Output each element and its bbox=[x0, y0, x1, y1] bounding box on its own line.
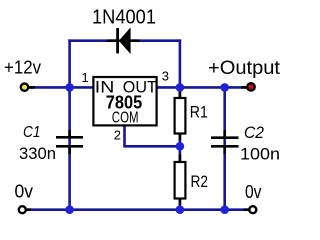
terminal +12v bbox=[21, 84, 28, 91]
terminal lead +Output bbox=[242, 86, 248, 89]
diode D1 cathode bar bbox=[116, 28, 119, 53]
junction dot bottom C2 bbox=[220, 205, 229, 214]
junction dot R1/R2/pin2 bbox=[176, 142, 185, 151]
junction dot bottom R2 bbox=[176, 205, 185, 214]
svg-text:C1: C1 bbox=[23, 124, 41, 141]
svg-text:330n: 330n bbox=[19, 144, 56, 163]
svg-text:R1: R1 bbox=[190, 103, 208, 122]
svg-text:1: 1 bbox=[82, 70, 89, 85]
terminal lead 0v right bbox=[244, 208, 250, 211]
resistor R1 leads bbox=[179, 91, 182, 98]
svg-text:3: 3 bbox=[162, 69, 169, 84]
wire right loop vertical bbox=[179, 39, 182, 87]
svg-text:+Output: +Output bbox=[208, 58, 281, 79]
wire +12v input to pin 1 bbox=[28, 86, 93, 89]
wire pin 2 vertical bbox=[125, 127, 180, 147]
resistor R2 body bbox=[175, 162, 186, 199]
terminal 0v right bbox=[249, 206, 256, 213]
wire left vertical bbox=[68, 39, 71, 209]
capacitor C2 plates bbox=[211, 136, 239, 139]
wire C2 branch vertical bbox=[223, 87, 226, 209]
svg-text:2: 2 bbox=[114, 128, 121, 143]
svg-text:R2: R2 bbox=[191, 172, 209, 191]
wire pin 3 to +Output bbox=[158, 86, 248, 89]
svg-text:+12v: +12v bbox=[4, 58, 41, 78]
regulator U1 7805 body bbox=[93, 77, 156, 125]
junction dot pin3/R1 bbox=[176, 83, 185, 92]
svg-text:0v: 0v bbox=[245, 182, 262, 202]
junction dot bottom C1 bbox=[65, 205, 74, 214]
diode D1 triangle bbox=[119, 27, 131, 54]
resistor R2 leads bbox=[179, 155, 182, 163]
terminal +Output bbox=[247, 83, 254, 90]
capacitor C1 plates bbox=[56, 136, 83, 139]
capacitor C1 leads bbox=[68, 130, 71, 137]
junction dot input bbox=[65, 83, 74, 92]
capacitor C2 leads bbox=[223, 130, 226, 137]
junction dot output/C2 bbox=[220, 83, 229, 92]
wire bottom 0v rail bbox=[25, 208, 249, 211]
diode D1 lead right bbox=[130, 39, 140, 42]
svg-text:COM: COM bbox=[112, 110, 139, 127]
svg-text:0v: 0v bbox=[15, 182, 34, 202]
resistor R1 body bbox=[175, 98, 186, 134]
wire top horizontal (diode branch) bbox=[68, 39, 181, 42]
terminal lead +12v bbox=[29, 86, 36, 89]
wire R1 R2 branch vertical bbox=[179, 87, 182, 209]
svg-text:1N4001: 1N4001 bbox=[92, 7, 156, 29]
svg-text:100n: 100n bbox=[240, 145, 280, 164]
diode D1 lead left bbox=[107, 39, 118, 42]
terminal 0v left bbox=[19, 206, 26, 213]
terminal lead 0v left bbox=[26, 208, 32, 211]
svg-text:C2: C2 bbox=[244, 123, 264, 142]
